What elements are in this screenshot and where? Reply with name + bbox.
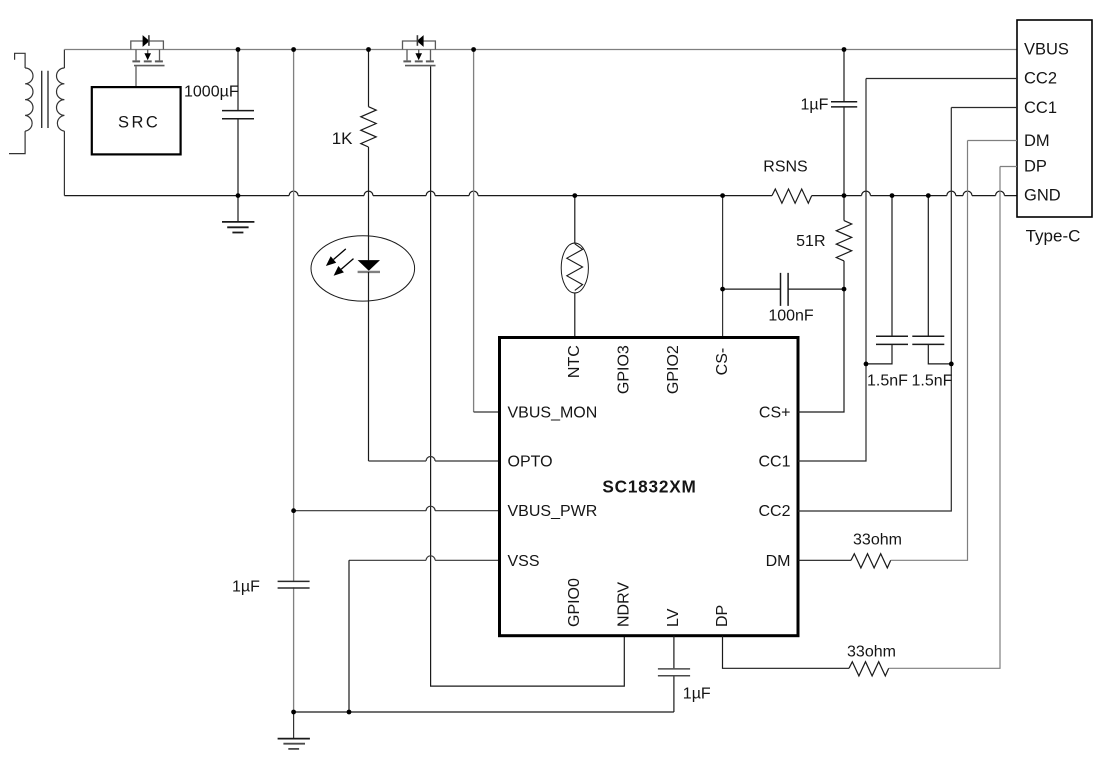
svg-text:DP: DP	[1024, 158, 1047, 176]
mosfet Q1 gate bar	[134, 65, 165, 67]
capacitor C6 1.5nF top wire	[927, 196, 929, 336]
wire CC1 stub from box	[951, 107, 1017, 109]
optocoupler U3 emission arrow 1	[334, 249, 346, 260]
wire OPTO row to IC with hop	[369, 460, 500, 462]
transformer T1 secondary top lead to VBUS rail	[63, 50, 65, 69]
hop on GND rail over node at x=368.5	[364, 191, 373, 196]
wire bottom node line	[294, 711, 674, 713]
wire from top rail down at x=293.6 to bottom node	[293, 50, 295, 713]
mosfet Q1 body-diode cathode bar	[148, 35, 150, 46]
svg-text:33ohm: 33ohm	[847, 643, 896, 660]
ground symbol GND2 bars	[278, 738, 310, 740]
svg-text:VBUS_PWR: VBUS_PWR	[508, 503, 598, 520]
transformer T1 primary top lead	[15, 53, 26, 68]
transformer T1 core	[42, 71, 48, 128]
junction dot GND rail x=574.8	[572, 193, 577, 198]
wire DP stub from box	[1000, 166, 1017, 168]
mosfet Q1 body-diode loop	[131, 41, 164, 50]
optocoupler U3 ellipse	[311, 236, 415, 301]
wire Type-C CC2 net vertical x=866	[798, 79, 866, 462]
resistor R1 1K top wire	[368, 50, 370, 107]
svg-text:1K: 1K	[332, 129, 353, 148]
svg-text:VBUS: VBUS	[1024, 41, 1069, 59]
svg-text:VBUS_MON: VBUS_MON	[508, 405, 598, 422]
svg-text:51R: 51R	[796, 233, 825, 250]
wire LV pin down to capacitor	[673, 636, 675, 669]
svg-text:CS-: CS-	[714, 348, 731, 376]
svg-text:GPIO2: GPIO2	[665, 345, 682, 394]
capacitor C3 bottom wire to GND rail	[843, 108, 845, 196]
capacitor C7 bottom wire	[673, 676, 675, 712]
mosfet Q2 gate bar	[405, 65, 436, 67]
resistor R2 51R zigzag	[836, 221, 851, 261]
wire GND rail right of RSNS with hops	[812, 195, 1017, 197]
mosfet Q2 drain and source legs	[407, 50, 431, 61]
capacitor C4 100nF left wire	[723, 288, 781, 290]
transformer T1 secondary winding	[57, 68, 65, 131]
svg-text:CC2: CC2	[758, 503, 790, 520]
mosfet Q2 body-diode cathode bar	[416, 35, 418, 46]
ground symbol GND1 bars	[222, 221, 254, 223]
wire VSS row to IC with hop	[349, 559, 500, 561]
wire DM stub from box	[968, 140, 1018, 142]
wire VBUS_MON row to IC	[474, 411, 500, 413]
capacitor C7 1uF plates	[658, 669, 690, 676]
junction dot top rail x=368.5	[366, 47, 371, 52]
wire DP pin down	[723, 636, 850, 669]
svg-text:OPTO: OPTO	[508, 454, 553, 471]
svg-text:CC1: CC1	[1024, 99, 1057, 117]
wire Type-C CC1 net vertical x=951.3	[798, 108, 951, 512]
junction dot GND rail x=892	[890, 193, 895, 198]
capacitor C3 1uF top wire at x=844	[843, 50, 845, 102]
hop on GND rail over CC2 line x=866	[862, 191, 871, 196]
resistor R4 33ohm DP zigzag	[849, 662, 889, 676]
svg-text:1.5nF: 1.5nF	[867, 372, 908, 389]
junction dot top rail x=473.6	[471, 47, 476, 52]
svg-text:1000µF: 1000µF	[184, 84, 239, 101]
junction dot CC2 net 1.5nF	[864, 362, 869, 367]
svg-text:1µF: 1µF	[683, 686, 711, 703]
wire VSS down to bottom node	[348, 560, 350, 712]
wire NTC net from GND rail down	[574, 196, 576, 244]
junction dot top rail x=293.6	[291, 47, 296, 52]
svg-text:GPIO3: GPIO3	[615, 345, 632, 394]
wire DM pin right	[798, 559, 851, 561]
svg-text:1µF: 1µF	[801, 97, 829, 114]
mosfet Q1 drain and source legs	[136, 50, 160, 61]
mosfet Q2 body-diode triangle	[417, 36, 423, 46]
junction dot bottom node x=293.6	[291, 710, 296, 715]
capacitor C5 1.5nF plates	[876, 336, 908, 344]
svg-text:GPIO0: GPIO0	[566, 578, 583, 627]
wire 51R bottom to CS+ row	[798, 261, 844, 412]
junction dot GND rail x=844	[842, 193, 847, 198]
SRC controller box	[92, 87, 181, 154]
wire R1 bottom to LED	[368, 147, 370, 260]
transformer T1 primary winding	[25, 68, 33, 131]
capacitor C1 1000uF bottom wire	[237, 119, 239, 195]
svg-text:DM: DM	[1024, 132, 1050, 150]
capacitor C4 100nF right wire	[788, 288, 844, 290]
hop on GND rail over CC1 line x=951.3	[947, 191, 956, 196]
svg-text:1µF: 1µF	[232, 579, 260, 596]
IC U1 SC1832XM box	[500, 338, 799, 636]
mosfet Q2 substrate arrow	[418, 50, 420, 55]
ground symbol GND2 stub	[293, 712, 295, 738]
junction dot 100nF right x=844	[842, 287, 847, 292]
optocoupler U3 LED triangle	[358, 260, 380, 271]
svg-text:DM: DM	[766, 553, 791, 570]
svg-text:LV: LV	[665, 608, 682, 627]
wire DP to Type-C DP vertical	[889, 167, 1000, 669]
capacitor C3 1uF plates	[831, 102, 857, 107]
thermistor NTC ellipse	[561, 243, 588, 293]
wire from top rail down at x=473.6 to VBUS_MON row	[473, 50, 475, 413]
junction dot GND rail x=722.6	[720, 193, 725, 198]
svg-text:CS+: CS+	[759, 405, 791, 422]
mosfet Q2 body-diode loop	[403, 41, 436, 50]
svg-text:SC1832XM: SC1832XM	[602, 476, 696, 496]
capacitor C1 1000uF plates	[222, 111, 254, 119]
wire NTC to IC pin	[574, 292, 576, 337]
hop on GND rail over DM line x=967.5	[963, 191, 972, 196]
hop on GND rail over node at x=430.6	[426, 191, 435, 196]
hop on GND rail over DP line x=1000	[996, 191, 1005, 196]
capacitor C6 bottom jog to CC1 net	[928, 345, 951, 364]
transformer T1 secondary bottom lead to GND rail	[63, 131, 65, 196]
ground symbol GND1 stub	[237, 196, 239, 222]
resistor RSNS inline in GND rail	[772, 189, 812, 203]
svg-text:NDRV: NDRV	[615, 582, 632, 627]
thermistor NTC zigzag	[567, 244, 583, 291]
svg-text:CC1: CC1	[758, 454, 790, 471]
svg-text:33ohm: 33ohm	[853, 531, 902, 548]
resistor R3 33ohm DM zigzag	[851, 554, 891, 568]
mosfet Q1 channel plates	[132, 60, 163, 62]
capacitor C1 1000uF top wire	[237, 50, 239, 111]
capacitor C6 1.5nF plates	[912, 336, 944, 344]
wire VBUS top rail	[64, 49, 1017, 51]
optocoupler U3 LED cathode bar	[358, 271, 380, 273]
svg-text:Type-C: Type-C	[1026, 227, 1081, 246]
svg-text:100nF: 100nF	[768, 307, 814, 324]
junction dot CC1 net 1.5nF	[949, 362, 954, 367]
wire Q2 gate down NDRV net	[431, 66, 625, 686]
resistor R1 1K zigzag	[361, 107, 376, 147]
svg-text:VSS: VSS	[508, 553, 540, 570]
junction dot top rail x=238	[236, 47, 241, 52]
wire CC2 stub from box	[866, 78, 1017, 80]
transformer T1 primary bottom lead	[9, 131, 25, 154]
junction dot VBUS_PWR x=293.6	[291, 508, 296, 513]
svg-text:1.5nF: 1.5nF	[912, 372, 953, 389]
capacitor C4 100nF plates	[781, 273, 789, 306]
optocoupler U3 emission arrow 2	[341, 259, 353, 270]
capacitor C2 1uF plates overdraw gap	[289, 582, 299, 587]
hop on GND rail over node at x=473.6	[469, 191, 478, 196]
wire DM to Type-C DM vertical	[891, 141, 968, 561]
junction dot 100nF left x=722.6	[720, 287, 725, 292]
svg-text:GND: GND	[1024, 187, 1061, 205]
Type-C connector J1 box	[1017, 20, 1092, 217]
junction dot GND rail x=238	[236, 193, 241, 198]
junction dot GND rail x=928.3	[926, 193, 931, 198]
wire Q1 gate to SRC box	[135, 66, 137, 87]
mosfet Q1 substrate arrow	[147, 50, 149, 55]
hop on GND rail over node at x=293.6	[289, 191, 298, 196]
wire LED cathode down to OPTO row	[368, 272, 370, 461]
wire VBUS_PWR row to IC with hop	[294, 510, 500, 512]
wire GND rail left of RSNS with hops	[64, 195, 772, 197]
mosfet Q1 body-diode triangle	[143, 36, 149, 46]
mosfet Q2 channel plates	[403, 60, 434, 62]
junction dot top rail x=844	[842, 47, 847, 52]
capacitor C5 1.5nF top wire	[891, 196, 893, 336]
wire CS- net vertical	[722, 196, 724, 338]
svg-text:NTC: NTC	[566, 345, 583, 378]
svg-text:DP: DP	[714, 605, 731, 627]
capacitor C5 bottom jog to CC2 net	[866, 345, 892, 364]
junction dot bottom node x=349	[347, 710, 352, 715]
svg-text:CC2: CC2	[1024, 70, 1057, 88]
svg-text:SRC: SRC	[118, 113, 160, 131]
wire GND rail to 51R	[843, 196, 845, 221]
svg-text:RSNS: RSNS	[763, 158, 807, 175]
